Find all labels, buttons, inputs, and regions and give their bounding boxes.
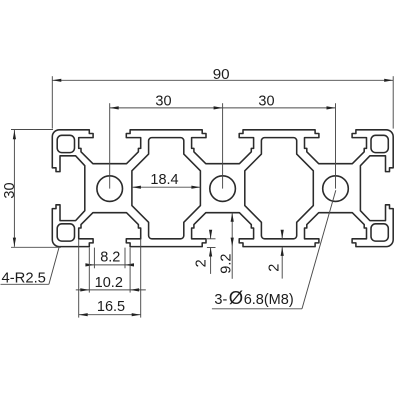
corner channel top-left xyxy=(57,135,74,152)
svg-text:18.4: 18.4 xyxy=(150,172,178,188)
svg-text:9.2: 9.2 xyxy=(219,254,235,274)
octagonal cavity 1 xyxy=(132,138,201,239)
dimension 2 lip thickness xyxy=(193,230,215,274)
svg-text:16.5: 16.5 xyxy=(97,299,125,315)
dimension 90 overall width xyxy=(52,66,393,129)
dimension 30 (pitch left) xyxy=(110,93,223,109)
dimension 30 height xyxy=(2,130,61,248)
label 3-dia6.8(M8) holes xyxy=(212,190,336,309)
dimension 30 (pitch right) xyxy=(223,93,336,109)
corner channel bottom-left xyxy=(57,224,74,241)
dimension 18.4 cavity width xyxy=(132,172,201,189)
svg-text:2: 2 xyxy=(193,259,209,267)
centre line slot 1 xyxy=(109,103,111,188)
label 4-R2.5 corner radius xyxy=(1,246,60,286)
svg-text:30: 30 xyxy=(2,182,18,198)
dimension 9.2 slot depth xyxy=(219,213,235,279)
svg-text:30: 30 xyxy=(258,93,274,109)
svg-text:2: 2 xyxy=(267,264,283,272)
hole circle 2 (6.8mm) xyxy=(210,176,236,202)
corner channel top-right xyxy=(371,135,388,152)
hole circle 3 (6.8mm) xyxy=(323,176,349,202)
centre line slot 3 xyxy=(335,103,337,188)
profile outline xyxy=(52,130,393,247)
centre line slot 2 xyxy=(222,103,224,188)
svg-text:8.2: 8.2 xyxy=(100,249,120,265)
svg-text:30: 30 xyxy=(155,93,171,109)
octagonal cavity 2 xyxy=(245,138,313,239)
corner channel bottom-right xyxy=(371,224,388,241)
hole circle 1 (6.8mm) xyxy=(97,176,123,202)
dimension 16.5 cavity width xyxy=(79,239,141,318)
dimension 10.2 slot step width xyxy=(76,248,146,293)
svg-text:10.2: 10.2 xyxy=(95,275,123,291)
dimension 8.2 slot opening xyxy=(85,248,134,269)
dimension 2 wall thickness xyxy=(267,230,284,279)
svg-text:90: 90 xyxy=(213,66,230,83)
